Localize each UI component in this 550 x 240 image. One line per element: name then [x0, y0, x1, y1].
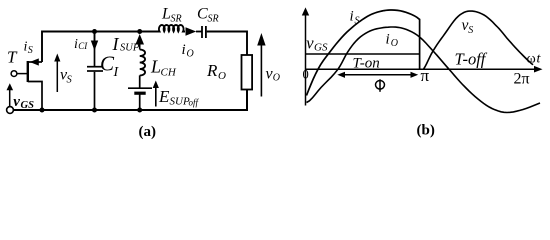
- svg-text:off: off: [189, 98, 200, 108]
- svg-text:O: O: [391, 38, 398, 49]
- x axis (omega-t): [306, 68, 537, 70]
- svg-text:ω: ω: [527, 52, 536, 67]
- svg-text:i: i: [386, 31, 390, 47]
- E_SUP_off arrow: [155, 87, 157, 107]
- svg-text:S: S: [355, 16, 360, 27]
- svg-text:I: I: [113, 65, 120, 80]
- waveform v_S: [424, 11, 534, 69]
- transistor T gate lead: [16, 73, 27, 75]
- svg-text:R: R: [206, 61, 218, 80]
- transistor T channel bar: [27, 61, 29, 82]
- capacitor C_I bottom wire: [94, 72, 96, 110]
- svg-text:(b): (b): [417, 123, 435, 139]
- svg-text:0: 0: [303, 68, 309, 82]
- svg-text:v: v: [13, 94, 20, 110]
- wire: choke to battery: [139, 75, 141, 87]
- node: bottom-rail junction at C_I: [92, 108, 97, 113]
- v_O arrow: [260, 44, 262, 97]
- wire: between i_O arrow and C_SR: [196, 31, 202, 33]
- wire: top rail from drain corner to right corner: [42, 32, 247, 63]
- inductor L_CH (vertical choke coil): [140, 50, 145, 76]
- label phi: [376, 81, 385, 90]
- i_CI arrow: [94, 34, 96, 43]
- svg-text:T: T: [7, 48, 18, 67]
- v_S arrow: [56, 61, 58, 93]
- source v_GS terminal circle: [7, 107, 14, 114]
- transistor T source lead: [28, 82, 42, 111]
- svg-text:E: E: [158, 87, 170, 106]
- wire: battery to bottom rail: [139, 95, 141, 111]
- capacitor C_I plates: [87, 66, 103, 68]
- pi vertical line (switch turn-off): [419, 19, 421, 69]
- svg-text:CI: CI: [78, 41, 88, 51]
- v_GS gate pulse top: [306, 53, 420, 55]
- svg-text:I: I: [112, 34, 120, 54]
- transistor T drain lead: [28, 61, 42, 63]
- svg-text:i: i: [182, 42, 186, 58]
- svg-text:SR: SR: [171, 14, 182, 25]
- svg-text:L: L: [150, 57, 161, 77]
- transistor T drain arrowhead (i_S direction): [30, 58, 39, 65]
- svg-text:t: t: [537, 52, 542, 67]
- svg-text:S: S: [67, 75, 73, 86]
- svg-text:π: π: [421, 66, 430, 85]
- wire: bottom rail: [13, 90, 247, 111]
- svg-text:SR: SR: [208, 14, 219, 25]
- inductor L_SR (series coil): [157, 25, 185, 32]
- svg-text:(a): (a): [139, 124, 157, 140]
- svg-text:SUP: SUP: [120, 43, 140, 54]
- svg-text:O: O: [273, 73, 280, 84]
- svg-text:C: C: [197, 6, 208, 23]
- svg-text:S: S: [468, 25, 473, 36]
- svg-text:i: i: [350, 9, 354, 25]
- battery E_SUP_off long plate: [128, 87, 152, 89]
- I_SUP arrow: [139, 43, 141, 50]
- capacitor C_I top wire: [94, 32, 96, 67]
- transistor T gate terminal circle: [11, 71, 17, 77]
- phi phase double arrow: [344, 74, 413, 76]
- i_O arrowhead on top rail: [186, 27, 197, 36]
- battery E_SUP_off short plate: [134, 92, 145, 95]
- svg-text:GS: GS: [21, 100, 35, 111]
- y axis: [305, 13, 307, 106]
- svg-text:T-on: T-on: [353, 56, 380, 72]
- node: bottom-rail junction at source: [40, 108, 45, 113]
- node: top-rail junction at choke: [137, 29, 142, 34]
- node: top-rail junction at C_I: [92, 29, 97, 34]
- capacitor C_SR plates: [201, 26, 203, 38]
- svg-text:S: S: [28, 45, 33, 56]
- svg-text:O: O: [187, 49, 194, 60]
- source v_GS arrow: [9, 89, 11, 106]
- node: bottom-rail junction at battery: [137, 108, 142, 113]
- waveform i_S: [307, 10, 420, 96]
- svg-text:T-off: T-off: [455, 50, 488, 69]
- svg-text:L: L: [161, 6, 171, 23]
- svg-text:SUP: SUP: [170, 96, 190, 108]
- svg-text:CH: CH: [161, 67, 177, 79]
- waveform i_O: [307, 27, 541, 113]
- svg-text:GS: GS: [314, 41, 328, 53]
- svg-text:2π: 2π: [514, 71, 530, 88]
- svg-text:O: O: [218, 70, 226, 82]
- resistor R_O box: [242, 55, 253, 90]
